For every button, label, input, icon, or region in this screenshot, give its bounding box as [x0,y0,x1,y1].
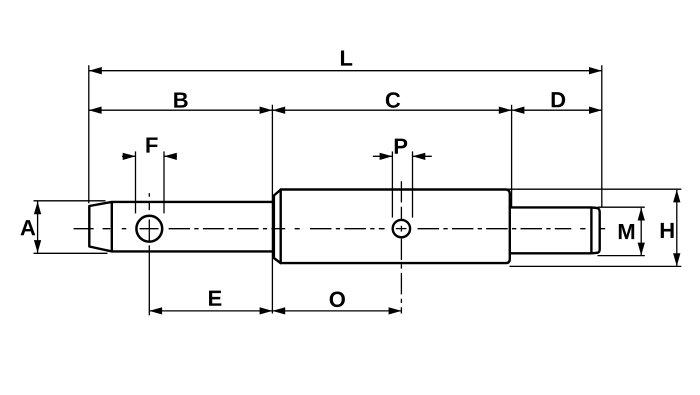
dimension O line [272,310,401,312]
hole right (with crosshair) [393,220,410,237]
dimension C line [272,109,511,111]
centerline vertical left hole [148,193,150,315]
dimension E line [149,310,272,312]
extension line B/C and E/O boundary [271,105,273,314]
label A [21,220,36,235]
dimension A line [37,202,39,253]
extension line F right [163,151,165,213]
label P [395,139,407,154]
label C [386,92,400,108]
dimension L line [89,70,602,72]
label H [661,223,674,238]
label F [146,137,157,152]
extension line L/B left [88,65,90,203]
dimension B line [89,109,273,111]
extension line H top [506,188,681,190]
extension line C/D boundary [511,105,513,207]
dimension F line (outside arrows) [122,155,136,157]
extension line M top [598,206,645,208]
extension line A bottom [34,252,108,254]
label M [619,224,634,239]
dimension M line [640,208,642,256]
extension line H bottom [510,265,682,267]
extension line M bottom [598,255,645,257]
part outline: threaded end [510,207,600,253]
centerline vertical right hole [400,181,402,313]
label D [552,92,565,107]
label E [209,291,221,306]
label L [341,50,352,65]
dimension H line [676,190,678,266]
part outline: middle body [274,190,510,264]
label B [174,92,187,107]
label O [330,292,345,308]
part outline: left pin section [89,202,272,252]
extension line A top [34,200,106,202]
hole left (with crosshair) [136,216,162,242]
dimension D line [512,109,602,111]
extension line P left [391,151,393,217]
dimension P line (outside arrows) [373,155,393,157]
extension line P right [412,151,414,217]
extension line L/D right [601,65,603,207]
centerline horizontal (main axis) [74,228,606,230]
extension line F left [135,151,137,213]
